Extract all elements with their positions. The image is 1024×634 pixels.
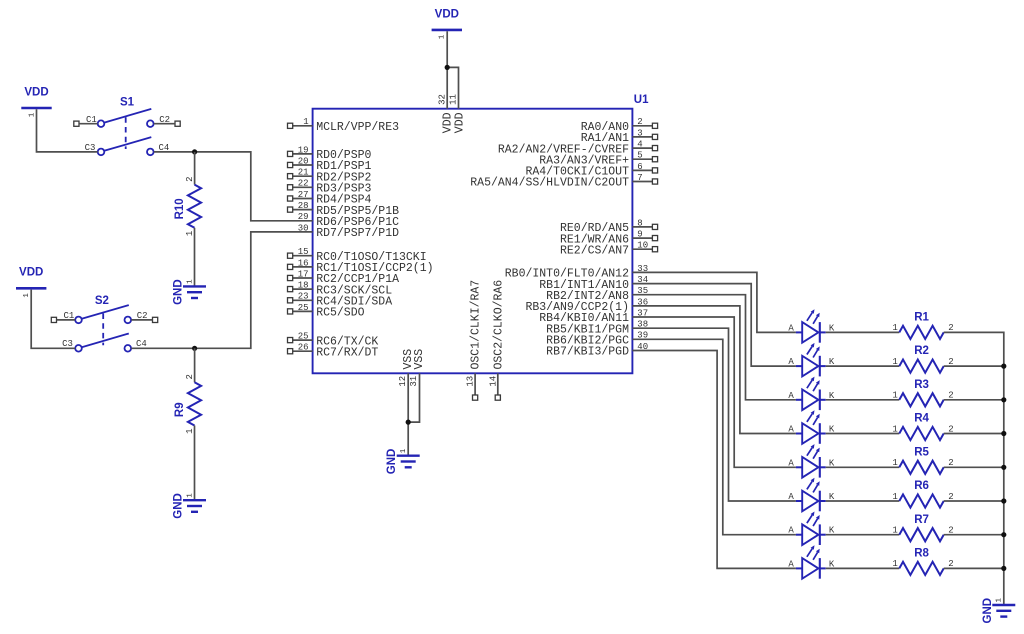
svg-text:VDD: VDD xyxy=(24,86,48,98)
svg-text:19: 19 xyxy=(298,145,309,155)
switch S1 xyxy=(85,97,170,156)
wire VDD to pin 32 xyxy=(446,31,448,109)
svg-text:8: 8 xyxy=(637,218,642,228)
svg-text:25: 25 xyxy=(298,332,309,342)
svg-text:22: 22 xyxy=(298,179,309,189)
U1 pin 12 VSS xyxy=(398,349,415,387)
svg-text:MCLR/VPP/RE3: MCLR/VPP/RE3 xyxy=(316,121,399,134)
svg-text:A: A xyxy=(788,559,794,569)
svg-text:14: 14 xyxy=(488,376,498,387)
wire LED D6 to R6 xyxy=(826,500,900,502)
wire VDD to S1 C3 xyxy=(37,109,98,152)
resistor R1 xyxy=(892,312,953,340)
svg-text:R4: R4 xyxy=(914,413,929,425)
wire LED D8 to R8 xyxy=(826,567,900,569)
LED D3 xyxy=(788,377,835,411)
power VDD (S2) xyxy=(16,267,46,298)
wire branch to pin 11 xyxy=(447,67,458,108)
svg-text:1: 1 xyxy=(996,598,1004,603)
svg-text:23: 23 xyxy=(298,292,309,302)
svg-text:9: 9 xyxy=(637,230,642,240)
svg-text:1: 1 xyxy=(186,279,194,284)
U1 pin 1 MCLR/VPP/RE3 xyxy=(288,117,400,134)
no-connect terminal xyxy=(495,395,500,400)
U1 pin 16 RC1/T1OSI/CCP2(1) xyxy=(288,258,434,275)
svg-text:RA5/AN4/SS/HLVDIN/C2OUT: RA5/AN4/SS/HLVDIN/C2OUT xyxy=(470,177,629,190)
svg-text:A: A xyxy=(788,425,794,435)
svg-text:R6: R6 xyxy=(914,480,929,492)
U1 pin 38 RB5/KBI1/PGM xyxy=(546,320,648,337)
U1 pin 23 RC4/SDI/SDA xyxy=(288,292,393,309)
U1 pin 40 RB7/KBI3/PGD xyxy=(546,342,648,359)
U1 pin 27 RD4/PSP4 xyxy=(288,190,372,207)
U1 pin 10 RE2/CS/AN7 xyxy=(560,241,658,258)
svg-text:OSC1/CLKI/RA7: OSC1/CLKI/RA7 xyxy=(470,280,483,370)
wire R6 to GND bus xyxy=(944,500,1004,502)
svg-text:26: 26 xyxy=(298,343,309,353)
switch S2 xyxy=(62,295,147,352)
svg-text:6: 6 xyxy=(637,162,642,172)
U1 pin 3 RA1/AN1 xyxy=(581,128,658,145)
wire S2 C2 xyxy=(131,319,152,321)
svg-text:VDD: VDD xyxy=(453,112,466,133)
wire U1 pin 35 to LED D3 xyxy=(632,295,796,400)
svg-text:17: 17 xyxy=(298,269,309,279)
ground (R9) xyxy=(173,493,207,519)
wire R2 to GND bus xyxy=(944,365,1004,367)
U1 pin 20 RD1/PSP1 xyxy=(288,156,372,173)
wire U1 pin 33 to LED D1 xyxy=(632,272,796,332)
svg-text:S2: S2 xyxy=(95,295,109,307)
wire R5 to GND bus xyxy=(944,466,1004,468)
wire VDD to S2 C3 xyxy=(31,290,75,349)
svg-text:A: A xyxy=(788,357,794,367)
junction S2/R9 xyxy=(192,346,197,351)
svg-text:1: 1 xyxy=(28,112,36,117)
svg-text:1: 1 xyxy=(439,34,447,39)
terminal S1-C2 xyxy=(175,121,180,126)
terminal S1-C1 xyxy=(74,121,79,126)
resistor R8 xyxy=(892,548,953,576)
LED D8 xyxy=(788,545,835,579)
svg-text:R8: R8 xyxy=(914,548,929,560)
wire U1 pin 34 to LED D2 xyxy=(632,284,796,367)
svg-text:12: 12 xyxy=(398,376,408,387)
U1 pin 5 RA3/AN3/VREF+ xyxy=(539,151,657,168)
svg-text:10: 10 xyxy=(637,241,648,251)
wire R8 to GND bus xyxy=(944,567,1004,569)
wire pin 31 VSS join xyxy=(408,373,419,422)
wire LED D3 to R3 xyxy=(826,399,900,401)
svg-text:A: A xyxy=(788,526,794,536)
svg-text:RE2/CS/AN7: RE2/CS/AN7 xyxy=(560,244,629,257)
U1 pin 25 RC6/TX/CK xyxy=(288,332,379,349)
junction bus/R5 xyxy=(1001,465,1006,470)
svg-text:11: 11 xyxy=(449,94,459,105)
svg-text:1: 1 xyxy=(186,493,194,498)
svg-text:R3: R3 xyxy=(914,379,929,391)
svg-text:1: 1 xyxy=(892,492,897,502)
U1 pin 11 VDD xyxy=(449,94,467,133)
U1 pin 4 RA2/AN2/VREF-/CVREF xyxy=(498,140,658,157)
svg-text:R5: R5 xyxy=(914,446,929,458)
svg-text:VDD: VDD xyxy=(19,267,43,279)
svg-text:GND: GND xyxy=(386,449,398,475)
svg-text:1: 1 xyxy=(892,323,897,333)
resistor R3 xyxy=(892,379,953,407)
wire LED D1 to R1 xyxy=(826,331,900,333)
ground (below U1) xyxy=(386,448,420,474)
wire R3 to GND bus xyxy=(944,399,1004,401)
junction bus/R6 xyxy=(1001,498,1006,503)
U1 pin 22 RD3/PSP3 xyxy=(288,179,372,196)
svg-text:GND: GND xyxy=(173,279,185,305)
svg-text:18: 18 xyxy=(298,281,309,291)
svg-text:OSC2/CLKO/RA6: OSC2/CLKO/RA6 xyxy=(492,280,505,370)
svg-text:28: 28 xyxy=(298,201,309,211)
U1 pin 33 RB0/INT0/FLT0/AN12 xyxy=(505,264,648,281)
wire U1 pin 36 to LED D4 xyxy=(632,306,796,434)
svg-text:21: 21 xyxy=(298,168,309,178)
svg-text:13: 13 xyxy=(466,376,476,387)
U1 pin 13 OSC1/CLKI/RA7 xyxy=(466,280,483,400)
terminal S2-C1 xyxy=(51,317,56,322)
wire LED D5 to R5 xyxy=(826,466,900,468)
svg-text:32: 32 xyxy=(438,94,448,105)
U1 pin 35 RB2/INT2/AN8 xyxy=(546,286,648,303)
U1 pin 6 RA4/T0CKI/C1OUT xyxy=(525,162,657,179)
LED D6 xyxy=(788,478,835,512)
wire LED D7 to R7 xyxy=(826,534,900,536)
wire R10 to GND xyxy=(194,228,196,286)
svg-text:1: 1 xyxy=(303,117,308,127)
U1 pin 32 VDD xyxy=(438,94,455,133)
svg-text:A: A xyxy=(788,492,794,502)
wire to R9 xyxy=(194,348,196,382)
U1 pin 19 RD0/PSP0 xyxy=(288,145,372,162)
ground (R10) xyxy=(173,279,207,305)
no-connect terminal xyxy=(473,395,478,400)
svg-text:GND: GND xyxy=(982,598,994,624)
terminal S2-C2 xyxy=(153,317,158,322)
wire pin 12 VSS to GND xyxy=(407,373,409,455)
U1 pin 25 RC5/SDO xyxy=(288,303,365,320)
wire R1 to GND bus xyxy=(944,332,1004,366)
svg-text:25: 25 xyxy=(298,303,309,313)
wire LED D4 to R4 xyxy=(826,433,900,435)
svg-text:2: 2 xyxy=(185,176,195,181)
wire S1 C2 xyxy=(154,123,175,125)
svg-text:2: 2 xyxy=(185,374,195,379)
svg-text:RC5/SDO: RC5/SDO xyxy=(316,307,364,320)
resistor R10 xyxy=(174,176,201,236)
svg-text:1: 1 xyxy=(23,293,31,298)
svg-text:RC7/RX/DT: RC7/RX/DT xyxy=(316,346,378,359)
junction bus/R8 xyxy=(1001,566,1006,571)
power VDD (above U1) xyxy=(432,8,462,39)
svg-text:5: 5 xyxy=(637,151,642,161)
LED D7 xyxy=(788,512,835,546)
U1 pin 18 RC3/SCK/SCL xyxy=(288,281,393,298)
LED D5 xyxy=(788,444,835,478)
junction bus/R4 xyxy=(1001,431,1006,436)
svg-text:RD7/PSP7/P1D: RD7/PSP7/P1D xyxy=(316,227,399,240)
U1 pin 17 RC2/CCP1/P1A xyxy=(288,269,400,286)
wire S2 C4 to U1 pin 30 xyxy=(131,232,312,348)
wire U1 pin 39 to LED D7 xyxy=(632,339,796,534)
U1 pin 36 RB3/AN9/CCP2(1) xyxy=(525,297,648,314)
svg-text:R1: R1 xyxy=(914,312,929,324)
wire S1 C4 to U1 pin 29 xyxy=(154,152,313,221)
U1 pin 39 RB6/KBI2/PGC xyxy=(546,331,648,348)
resistor R5 xyxy=(892,446,953,474)
resistor R6 xyxy=(892,480,953,508)
U1 pin 2 RA0/AN0 xyxy=(581,117,658,134)
junction VDD branch xyxy=(445,65,450,70)
junction bus/R7 xyxy=(1001,532,1006,537)
wire U1 pin 40 to LED D8 xyxy=(632,351,796,569)
junction bus/R2 xyxy=(1001,364,1006,369)
U1 pin 37 RB4/KBI0/AN11 xyxy=(539,308,648,325)
svg-text:20: 20 xyxy=(298,156,309,166)
wire U1 pin 37 to LED D5 xyxy=(632,317,796,467)
svg-text:4: 4 xyxy=(637,140,642,150)
svg-text:R9: R9 xyxy=(174,402,186,417)
U1 pin 9 RE1/WR/AN6 xyxy=(560,230,658,247)
svg-text:1: 1 xyxy=(400,448,408,453)
svg-text:1: 1 xyxy=(892,424,897,434)
ground (LED bus) xyxy=(982,598,1016,624)
svg-text:R10: R10 xyxy=(174,198,186,219)
svg-text:16: 16 xyxy=(298,258,309,268)
svg-text:RB7/KBI3/PGD: RB7/KBI3/PGD xyxy=(546,346,629,359)
svg-text:27: 27 xyxy=(298,190,309,200)
svg-text:7: 7 xyxy=(637,173,642,183)
wire LED D2 to R2 xyxy=(826,365,900,367)
svg-text:A: A xyxy=(788,323,794,333)
U1 pin 30 RD7/PSP7/P1D xyxy=(298,223,399,240)
wire R9 to GND xyxy=(194,426,196,501)
wire S2 C1 xyxy=(57,319,76,321)
U1 pin 28 RD5/PSP5/P1B xyxy=(288,201,400,218)
U1 pin 29 RD6/PSP6/P1C xyxy=(298,212,399,229)
op-amp/IC U1 body xyxy=(313,109,633,374)
svg-text:1: 1 xyxy=(892,559,897,569)
junction S1/R10 xyxy=(192,149,197,154)
svg-text:S1: S1 xyxy=(120,97,135,109)
U1 pin 26 RC7/RX/DT xyxy=(288,343,379,360)
U1 pin 31 VSS xyxy=(409,349,426,387)
LED D4 xyxy=(788,410,835,444)
LED D1 xyxy=(788,309,835,343)
svg-text:A: A xyxy=(788,458,794,468)
svg-text:3: 3 xyxy=(637,128,642,138)
junction bus/R3 xyxy=(1001,397,1006,402)
svg-text:1: 1 xyxy=(892,458,897,468)
svg-text:1: 1 xyxy=(892,357,897,367)
junction VSS xyxy=(406,420,411,425)
wire GND bus xyxy=(1003,366,1005,605)
svg-text:1: 1 xyxy=(892,391,897,401)
resistor R2 xyxy=(892,345,953,373)
power VDD (S1) xyxy=(21,86,51,117)
svg-text:15: 15 xyxy=(298,247,309,257)
resistor R7 xyxy=(892,514,953,542)
LED D2 xyxy=(788,343,835,377)
U1 pin 14 OSC2/CLKO/RA6 xyxy=(488,280,505,401)
U1 pin 8 RE0/RD/AN5 xyxy=(560,218,658,235)
svg-text:U1: U1 xyxy=(634,94,649,106)
U1 pin 15 RC0/T1OSO/T13CKI xyxy=(288,247,427,264)
svg-text:VDD: VDD xyxy=(435,8,459,20)
wire U1 pin 38 to LED D6 xyxy=(632,328,796,501)
wire S1 C1 xyxy=(79,123,98,125)
wire to R10 xyxy=(194,152,196,185)
svg-text:VSS: VSS xyxy=(413,349,426,370)
svg-text:R2: R2 xyxy=(914,345,929,357)
svg-text:31: 31 xyxy=(409,376,419,387)
U1 pin 21 RD2/PSP2 xyxy=(288,168,372,185)
svg-text:1: 1 xyxy=(892,526,897,536)
U1 pin 7 RA5/AN4/SS/HLVDIN/C2OUT xyxy=(470,173,657,190)
resistor R9 xyxy=(174,374,201,434)
svg-text:2: 2 xyxy=(637,117,642,127)
svg-text:R7: R7 xyxy=(914,514,929,526)
U1 pin 34 RB1/INT1/AN10 xyxy=(539,275,648,292)
wire R4 to GND bus xyxy=(944,433,1004,435)
svg-text:GND: GND xyxy=(173,493,185,519)
resistor R4 xyxy=(892,413,953,441)
wire R7 to GND bus xyxy=(944,534,1004,536)
svg-text:A: A xyxy=(788,391,794,401)
